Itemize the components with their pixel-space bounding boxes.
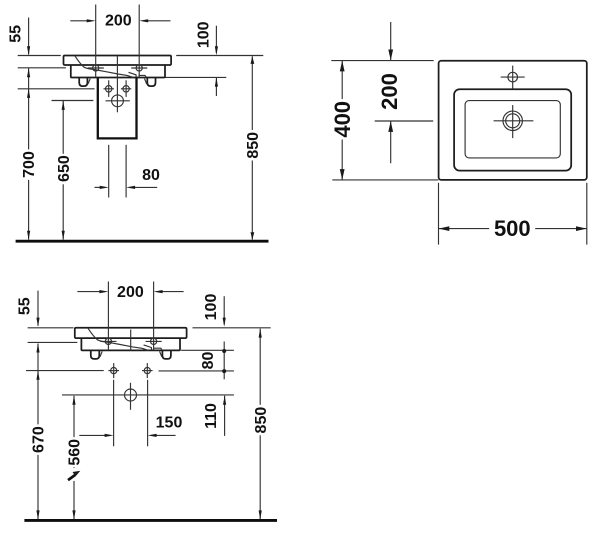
dim 55 / 700 shaft: [28, 18, 30, 55]
ext line bottom: [332, 179, 438, 181]
svg-text:100: 100: [196, 21, 213, 48]
left foot: [91, 351, 99, 359]
dim 650 label: [56, 154, 71, 185]
svg-text:400: 400: [330, 101, 355, 138]
dim 850 label: [245, 130, 260, 161]
centerline: [130, 330, 132, 351]
bowl inner rect: [465, 101, 560, 158]
ext line small holes right: [159, 370, 234, 372]
svg-text:200: 200: [105, 13, 132, 30]
VIEW3 front elevation with mounting holes: [17, 282, 278, 521]
dim 150 arrows: [79, 434, 106, 436]
dim 100 line: [215, 26, 217, 53]
right foot bracket line: [145, 79, 147, 84]
svg-text:200: 200: [117, 284, 144, 301]
right foot: [162, 351, 171, 359]
ext line mounting holes left: [18, 88, 95, 90]
dim 500 extension lines: [438, 183, 440, 245]
outlet direction arrow: [68, 475, 75, 480]
dim 55 / 670 shaft: [37, 291, 39, 326]
bowl drain recess line: [144, 345, 162, 350]
ext line rim top right: [193, 327, 271, 329]
svg-text:80: 80: [200, 352, 217, 370]
dim 500 shaft: [439, 228, 587, 230]
dim 200 arrows: [77, 291, 100, 293]
left foot bracket line: [100, 351, 102, 356]
dim 500 label: [489, 214, 535, 237]
dim 200 extension lines: [95, 5, 97, 78]
ext line rim top left: [28, 327, 74, 329]
svg-text:200: 200: [377, 73, 402, 110]
right foot: [147, 78, 155, 87]
right foot bracket line: [160, 351, 162, 356]
svg-text:150: 150: [156, 415, 183, 432]
svg-text:500: 500: [494, 216, 531, 241]
siphon box: [98, 78, 137, 139]
ext line drain level left: [52, 100, 94, 102]
left faucet hole crosshair: [93, 65, 99, 71]
dim 200 lower shaft: [390, 121, 392, 163]
dim 80 extension lines: [108, 145, 110, 198]
dim 850 label: [253, 405, 268, 436]
dim 80 dotted shaft: [223, 342, 225, 380]
body bottom extension right: [181, 349, 234, 351]
bowl drain recess line: [129, 72, 147, 77]
dim 700 label: [22, 149, 36, 180]
ext line 200 level: [375, 120, 434, 122]
dim 200 arrows: [70, 20, 88, 22]
left faucet hole crosshair: [105, 338, 111, 344]
basin rim slab: [75, 328, 187, 338]
right faucet hole crosshair: [136, 65, 142, 71]
dim 850 shaft: [259, 329, 261, 520]
ext line faucet level left: [28, 341, 78, 343]
bowl section curve: [88, 328, 149, 350]
dim 850 shaft: [251, 56, 253, 239]
dim 100 shaft: [223, 296, 225, 324]
basin body tier: [81, 338, 180, 350]
ext line rim top left: [18, 55, 61, 57]
left small mounting hole: [106, 86, 112, 92]
ground line: [16, 240, 269, 243]
drain double circle: [503, 111, 522, 130]
svg-text:650: 650: [56, 155, 73, 182]
basin rim slab: [63, 56, 171, 66]
basin body tier: [71, 65, 165, 78]
ext line top: [331, 60, 433, 62]
dim 110 shaft: [224, 396, 226, 436]
dim 200 extension lines: [107, 282, 109, 351]
right faucet hole crosshair: [151, 338, 157, 344]
svg-text:100: 100: [203, 294, 220, 321]
ext line rim top right: [176, 55, 263, 57]
dim 560 shaft: [73, 396, 75, 468]
dim 560 label: [67, 437, 82, 467]
dim 200 upper shaft: [390, 22, 392, 60]
left small mounting hole: [111, 368, 117, 374]
left foot: [79, 78, 87, 87]
svg-text:850: 850: [253, 407, 270, 434]
centerline: [116, 56, 118, 113]
dim 150 extension lines: [113, 380, 115, 447]
svg-text:670: 670: [31, 426, 48, 453]
left foot bracket line: [88, 79, 90, 84]
drain level line4: [62, 394, 234, 396]
svg-text:850: 850: [245, 132, 262, 159]
dim 80 arrows: [95, 186, 102, 188]
VIEW2 plan view: [330, 22, 587, 245]
svg-text:80: 80: [142, 167, 160, 184]
ceramic outer rect: [439, 61, 587, 180]
svg-text:560: 560: [67, 439, 84, 466]
VIEW1 front elevation with siphon box: [8, 5, 269, 242]
ext line small holes left: [26, 370, 104, 372]
dim 650 shaft: [62, 101, 64, 240]
bowl section curve: [75, 56, 133, 78]
drain outlet hole: [112, 95, 124, 107]
svg-text:55: 55: [17, 297, 34, 315]
dim 400 label: [333, 99, 353, 140]
dim 670 label: [31, 424, 46, 455]
svg-text:55: 55: [8, 25, 25, 43]
svg-text:700: 700: [21, 151, 38, 178]
dim 400 shaft: [341, 61, 343, 180]
right small mounting hole: [144, 368, 150, 374]
body bottom extension right: [165, 76, 226, 78]
right small mounting hole: [123, 86, 129, 92]
bowl outer rect: [454, 89, 571, 170]
large drain hole: [125, 389, 137, 401]
ext line faucet level left: [18, 67, 66, 69]
ground line: [24, 519, 277, 522]
tap hole: [508, 72, 518, 82]
svg-text:110: 110: [203, 403, 220, 429]
